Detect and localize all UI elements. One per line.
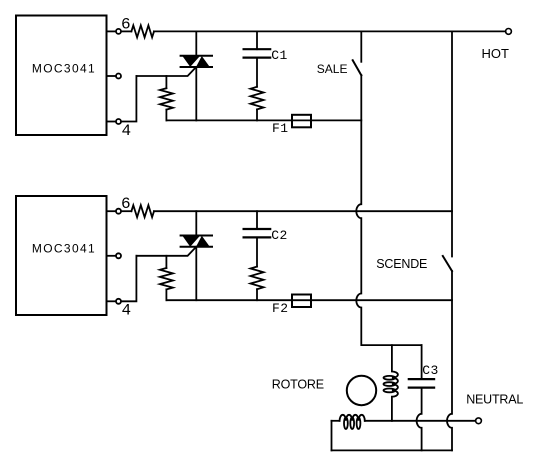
capacitor C2 bottom lead xyxy=(256,237,258,266)
motor rotor circle M1 xyxy=(347,376,376,405)
wire bottom rail 2 xyxy=(166,299,452,301)
triac Q2 main vertical xyxy=(195,211,197,235)
svg-text:SCENDE: SCENDE xyxy=(376,257,427,271)
svg-text:MOC3041: MOC3041 xyxy=(32,62,96,76)
pin 6 terminal circle U2 xyxy=(116,209,121,214)
capacitor C2 plates xyxy=(244,228,271,230)
inductor L2 rings xyxy=(344,417,348,429)
switch SALE upper lead xyxy=(360,31,362,61)
pin 6 stub U2 xyxy=(107,210,116,212)
capacitor C1 bottom lead xyxy=(256,58,258,87)
triac Q1 right triangle xyxy=(196,56,210,67)
svg-text:MOC3041: MOC3041 xyxy=(32,241,96,255)
wire right bus lower with hop over neutral line xyxy=(447,271,452,450)
capacitor C1 plates xyxy=(244,48,271,50)
triac Q2 bottom bar xyxy=(181,246,212,248)
triac Q2 top bar xyxy=(181,235,212,237)
svg-text:F1: F1 xyxy=(272,121,288,136)
resistor R1 (series, pin 6) xyxy=(131,25,154,37)
triac Q2 right triangle xyxy=(196,236,210,247)
wire neutral line to terminal xyxy=(365,420,476,422)
optocoupler U1 box MOC3041 xyxy=(16,16,107,136)
svg-text:C1: C1 xyxy=(271,48,287,63)
pin 4 terminal circle U2 xyxy=(116,299,121,304)
wire neutral line (stator winding row) xyxy=(332,420,340,422)
pin 4 terminal circle U1 xyxy=(116,119,121,124)
resistor R5 (gate, triac 2) xyxy=(165,256,167,268)
optocoupler U2 box MOC3041 xyxy=(16,196,107,315)
wire gate line 2 xyxy=(136,247,196,256)
wire pin6 to resistor R1 xyxy=(121,30,131,32)
node NEUTRAL terminal xyxy=(476,418,482,424)
pin 4 stub U2 xyxy=(107,300,116,302)
wire right bus upper (HOT to SCENDE) xyxy=(451,31,453,256)
middle pin stub U1 xyxy=(107,75,116,77)
triac Q2 left triangle xyxy=(182,236,200,247)
svg-text:NEUTRAL: NEUTRAL xyxy=(466,393,523,407)
wire pin4 riser U2 xyxy=(121,256,136,301)
middle pin terminal circle U2 xyxy=(116,253,121,258)
wire gate line 1 (middle pin to triac gate) xyxy=(136,67,196,76)
middle pin stub U2 xyxy=(107,255,116,257)
svg-text:HOT: HOT xyxy=(482,46,510,61)
wire pin4 riser xyxy=(121,76,136,122)
switch SCENDE blade xyxy=(443,256,452,271)
pin 6 stub U1 xyxy=(107,30,116,32)
svg-text:SALE: SALE xyxy=(317,62,348,76)
node HOT terminal xyxy=(506,29,512,35)
inductor L1 rings xyxy=(384,376,396,380)
wire top rail 1 (HOT rail) xyxy=(154,30,506,32)
svg-text:ROTORE: ROTORE xyxy=(272,377,324,391)
pin 4 stub U1 xyxy=(107,121,116,123)
capacitor C3 plates xyxy=(409,378,434,380)
capacitor C1 top lead xyxy=(256,31,258,49)
inductor L1 lead and humps (from SALE bus) xyxy=(392,345,398,421)
resistor R4 (series, pin 6, U2) xyxy=(131,205,154,217)
triac Q1 main vertical xyxy=(195,31,197,55)
resistor R2 (gate, triac 1) xyxy=(165,76,167,88)
triac Q1 bottom bar xyxy=(181,66,212,68)
pin 6 terminal circle U1 xyxy=(116,29,121,34)
wire motor box bottom bar xyxy=(332,449,453,451)
wire SALE bus down with hops over rails xyxy=(356,75,421,345)
wire motor box left side xyxy=(331,421,333,451)
capacitor C3 top lead xyxy=(421,345,423,379)
svg-text:C2: C2 xyxy=(271,228,287,243)
switch SALE blade xyxy=(353,60,362,75)
svg-text:4: 4 xyxy=(122,122,132,140)
triac Q1 top bar xyxy=(181,55,212,57)
capacitor C3 bottom lead with hop over neutral line xyxy=(417,388,422,451)
svg-text:F2: F2 xyxy=(272,301,288,316)
inductor L2 (stator winding) humps xyxy=(340,415,365,421)
fuse F1 xyxy=(292,115,311,128)
wire pin6 to resistor R4 xyxy=(121,210,131,212)
wire top rail 2 xyxy=(154,210,452,212)
svg-text:C3: C3 xyxy=(422,363,438,378)
resistor R6 (snubber 2) xyxy=(251,267,264,290)
resistor R3 (snubber 1) xyxy=(251,87,264,110)
capacitor C2 top lead xyxy=(256,211,258,229)
triac Q1 left triangle xyxy=(182,56,200,67)
svg-text:4: 4 xyxy=(122,302,132,320)
middle pin terminal circle U1 xyxy=(116,74,121,79)
wire bottom rail 1 xyxy=(166,119,361,121)
fuse F2 xyxy=(292,295,311,308)
